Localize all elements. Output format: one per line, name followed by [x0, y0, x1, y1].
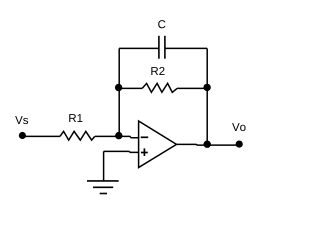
wire ground stem vertical — [103, 151, 105, 181]
wire left vertical (inverting node up to C row) — [118, 48, 120, 136]
wire R2 row left — [119, 87, 142, 89]
resistor R2 — [142, 83, 177, 92]
node junction output — [204, 141, 211, 148]
wire R2 row right — [177, 87, 207, 89]
resistor R2 label — [151, 67, 164, 75]
wire op-amp output to Vo (with jog) — [177, 143, 240, 146]
wire right vertical (output node up to C row) — [206, 48, 208, 144]
node junction left of R2 — [115, 84, 122, 91]
capacitor C plates — [159, 36, 165, 59]
op-amp minus sign — [141, 136, 149, 138]
ground — [87, 181, 119, 194]
terminal Vo — [236, 141, 243, 148]
wire R1 to inverting input (with jog) — [95, 136, 139, 137]
capacitor label C — [158, 20, 165, 28]
wire top row right segment (capacitor right plate to node) — [165, 47, 207, 49]
wire Vs to R1 — [22, 135, 60, 137]
resistor R1 label — [69, 114, 82, 122]
node junction inverting input — [115, 132, 122, 139]
label Vo — [232, 123, 246, 131]
wire top row left segment (node to capacitor left plate) — [119, 47, 159, 49]
node junction right of R2 — [203, 84, 210, 91]
op-amp U1 triangle — [139, 121, 177, 168]
op-amp plus sign — [141, 148, 148, 156]
wire non-inverting input to ground stem (with jog) — [104, 151, 139, 152]
label Vs — [15, 116, 28, 124]
terminal Vs — [19, 132, 26, 139]
resistor R1 — [60, 131, 95, 140]
